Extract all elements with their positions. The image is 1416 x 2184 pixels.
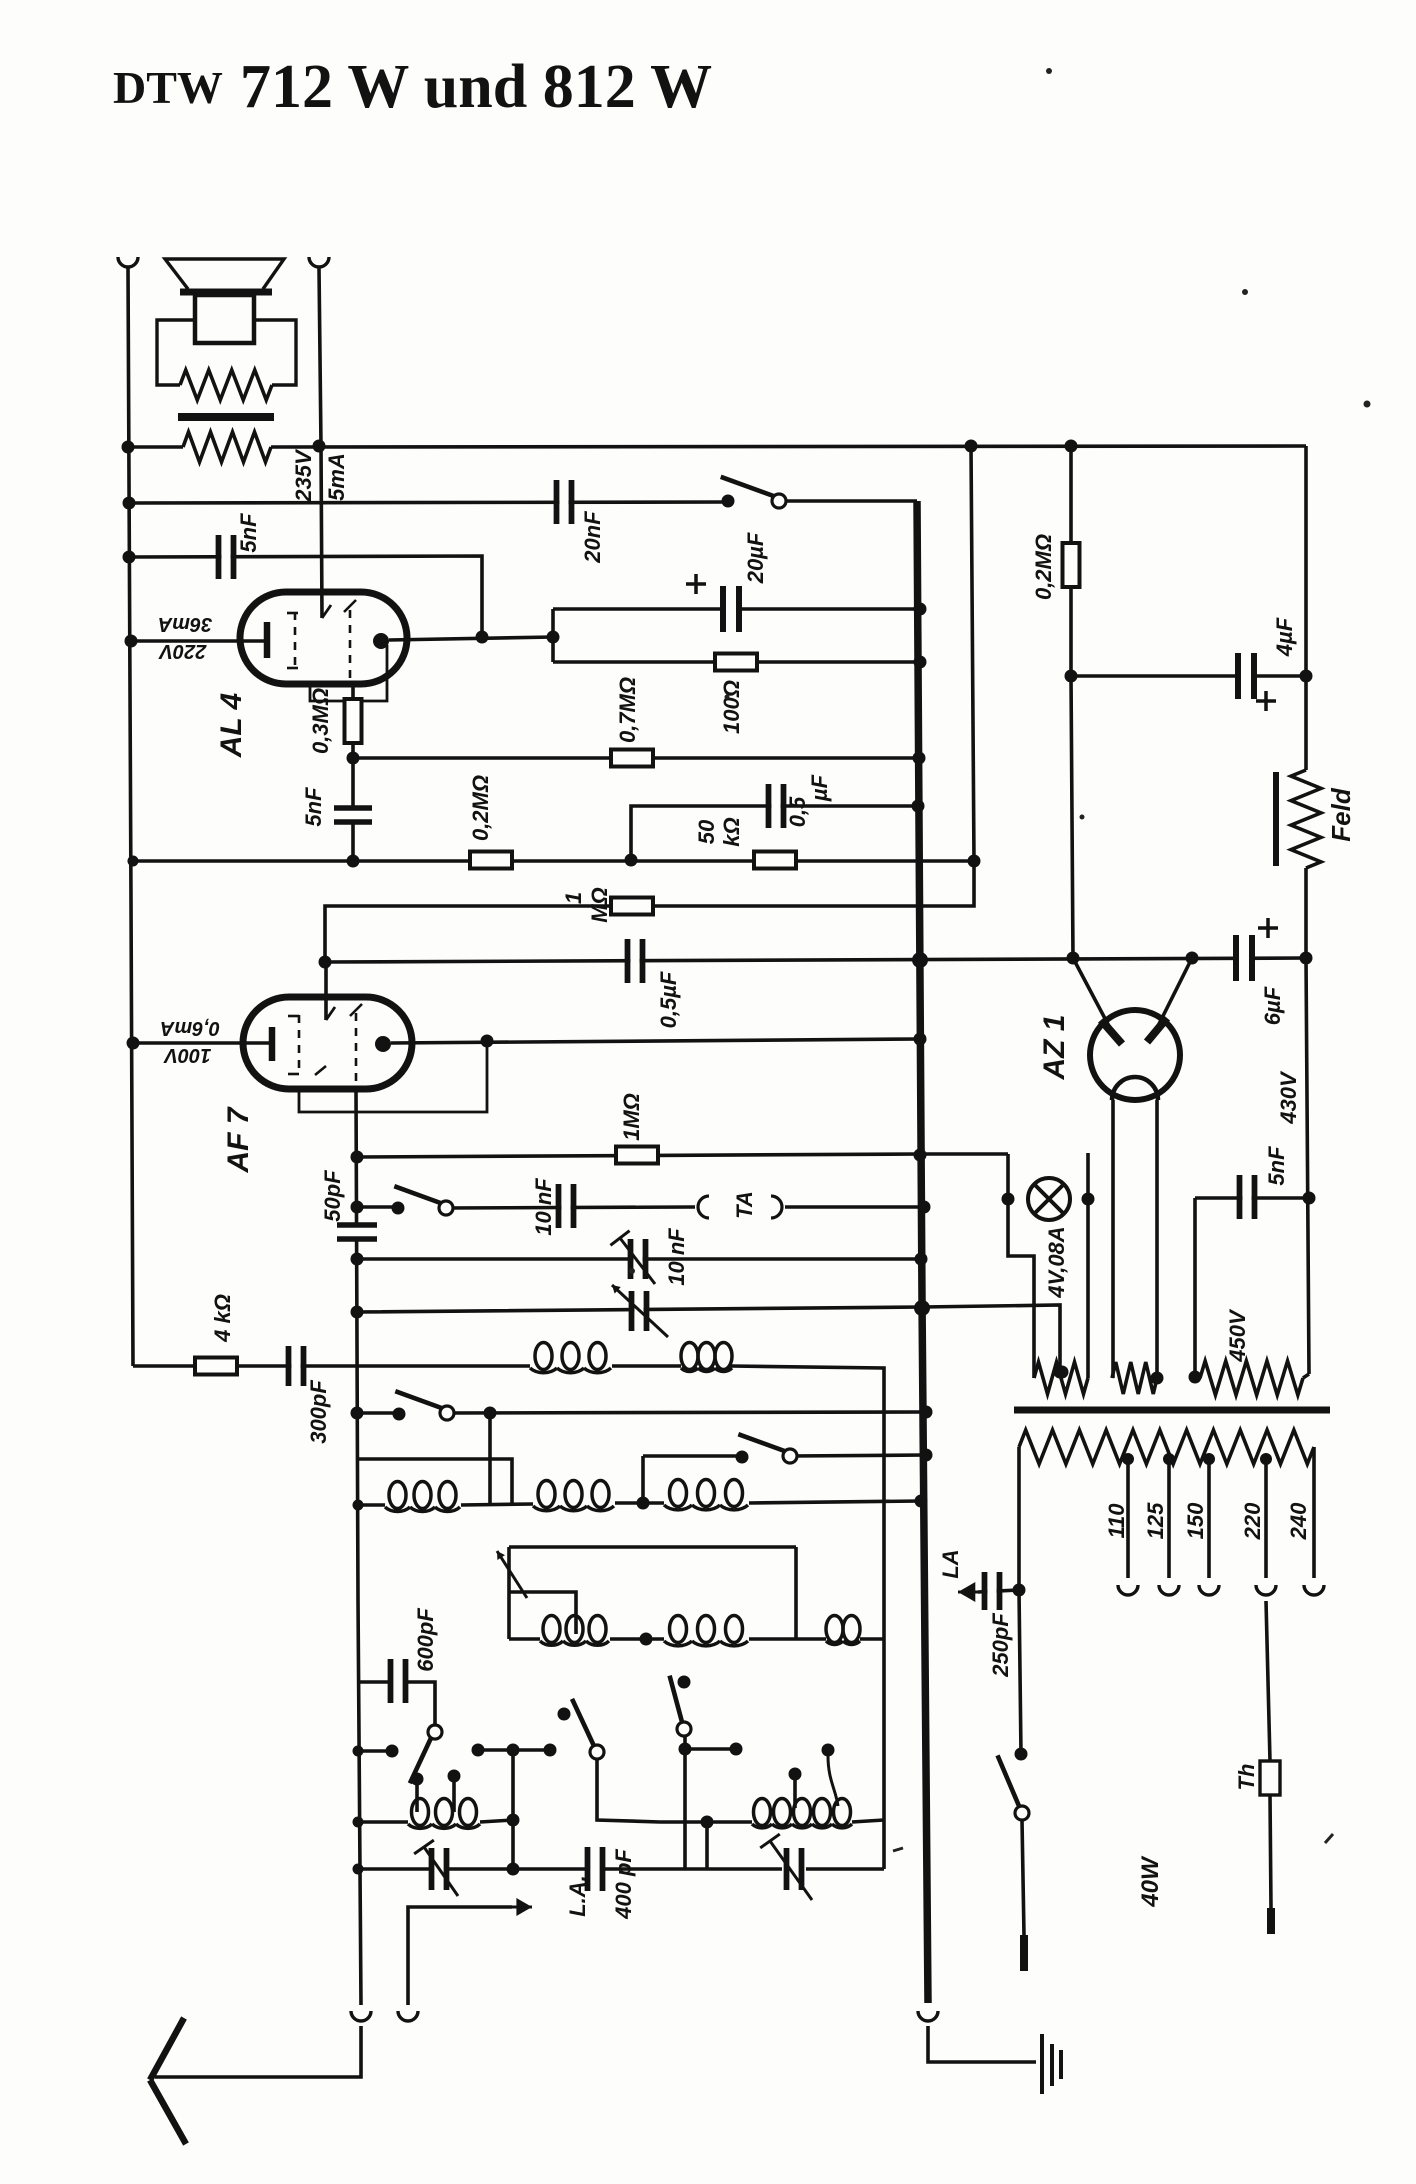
junction dot xyxy=(319,956,332,969)
output transformer box xyxy=(157,320,195,385)
wire tap stub b2 xyxy=(828,1756,838,1806)
tap jack 150 xyxy=(1199,1585,1219,1595)
terminal jack left of speaker xyxy=(118,257,138,267)
junction dot xyxy=(1300,952,1313,965)
coil oscillator B xyxy=(754,1799,771,1826)
junction dot xyxy=(351,1253,364,1266)
capacitor 250pF xyxy=(985,1572,1000,1610)
junction dot xyxy=(915,1495,928,1508)
svg-text:10 nF: 10 nF xyxy=(531,1178,556,1236)
junction dot xyxy=(625,854,638,867)
svg-text:110: 110 xyxy=(1104,1503,1129,1539)
junction dot xyxy=(507,1814,520,1827)
transformer winding AZ1 filament xyxy=(1112,1362,1157,1394)
junction dot xyxy=(386,1745,399,1758)
AF7 cathode lead xyxy=(133,1041,270,1045)
resistor 0.7Mohm xyxy=(611,750,653,767)
junction dot xyxy=(914,1300,930,1316)
capacitor 600pF xyxy=(391,1659,406,1703)
wire left vertical main xyxy=(128,268,133,1366)
svg-text:4µF: 4µF xyxy=(1272,617,1297,657)
capacitor 20nF xyxy=(557,480,572,524)
wire row1456 xyxy=(643,1454,742,1458)
coil row1503 a xyxy=(389,1482,406,1509)
transformer winding HV 450V xyxy=(1200,1361,1303,1395)
mains plug pin right xyxy=(1267,1908,1275,1934)
wire osc coil row right xyxy=(660,1820,752,1824)
switch contact dot xyxy=(736,1451,749,1464)
wire bus to ground xyxy=(928,2026,1036,2062)
AL4 cathode lead xyxy=(131,639,266,643)
switch pivot row1413 xyxy=(395,1391,447,1410)
junction dot xyxy=(347,855,360,868)
mains plug pin left xyxy=(1020,1935,1028,1971)
trimmer tuning xyxy=(632,1291,647,1331)
AF7 grid1 dashed xyxy=(298,1015,301,1075)
junction dot xyxy=(730,1743,743,1756)
capacitor 0.5uF top xyxy=(769,784,784,828)
capacitor 4uF electrolytic xyxy=(1238,653,1254,699)
AL4 anode dot xyxy=(373,633,389,649)
coil row1503 c xyxy=(670,1480,687,1507)
switch pivot TA xyxy=(394,1186,446,1205)
junction dot xyxy=(1303,1192,1316,1205)
AF7 cathode bar xyxy=(269,1027,276,1061)
junction dot xyxy=(507,1744,520,1757)
svg-text:L.A.: L.A. xyxy=(565,1875,590,1917)
bus wire xyxy=(917,501,928,2003)
wire branch x490 xyxy=(488,1413,492,1503)
svg-text:240: 240 xyxy=(1286,1502,1311,1540)
capacitor 10nF xyxy=(559,1184,574,1228)
wire 600pF row xyxy=(358,1680,391,1684)
junction dot xyxy=(1002,1193,1015,1206)
LA arrow xyxy=(495,1906,532,1909)
svg-text:0,2MΩ: 0,2MΩ xyxy=(468,775,493,841)
svg-text:0,7MΩ: 0,7MΩ xyxy=(615,677,640,743)
wire 0.2M right vertical xyxy=(1069,446,1073,676)
svg-text:10 nF: 10 nF xyxy=(664,1228,689,1286)
wire coil row1639 xyxy=(509,1637,540,1641)
wire x707 vertical xyxy=(705,1822,709,1869)
junction dot xyxy=(1082,1193,1095,1206)
wire left edge x509 xyxy=(507,1547,511,1639)
svg-text:100Ω: 100Ω xyxy=(719,680,744,734)
resistor 0.2Mohm right xyxy=(1063,543,1080,587)
svg-text:1MΩ: 1MΩ xyxy=(619,1093,644,1141)
AF7 anode dot xyxy=(375,1036,391,1052)
junction dot xyxy=(351,1151,364,1164)
svg-text:450V: 450V xyxy=(1225,1308,1250,1363)
junction dot xyxy=(353,1746,364,1757)
junction dot xyxy=(123,497,136,510)
junction dot xyxy=(912,952,928,968)
LA jack xyxy=(398,2011,418,2021)
coil row1366 b xyxy=(681,1343,698,1370)
wire AF7 grid cap lead xyxy=(324,962,328,1020)
junction dot xyxy=(481,1035,494,1048)
AL4 screen lead tick xyxy=(322,605,331,618)
AZ1 cathode dome xyxy=(1112,1077,1158,1100)
wire anode branch vertical xyxy=(551,609,555,662)
resistor 1Mohm b xyxy=(616,1147,658,1164)
junction dot xyxy=(1122,1453,1134,1465)
svg-text:Feld: Feld xyxy=(1326,787,1356,842)
wire line y960 xyxy=(325,958,1306,962)
resistor 4kohm xyxy=(195,1358,237,1375)
svg-text:5nF: 5nF xyxy=(236,513,261,553)
wire 20uF line y609 xyxy=(553,607,920,611)
wire row1459 xyxy=(358,1459,512,1503)
capacitor 300pF xyxy=(289,1346,304,1386)
wire tap stub b1 xyxy=(793,1779,797,1808)
trimmer pad b xyxy=(787,1848,802,1890)
wire trim row y1312 xyxy=(357,1305,1060,1372)
switch pivot xyxy=(721,477,779,498)
speaker voice coil xyxy=(195,295,254,343)
wire top line y446 xyxy=(128,445,183,449)
svg-text:6µF: 6µF xyxy=(1260,986,1285,1025)
AL4 grid 3 dashed to 0.3M xyxy=(349,610,352,684)
junction dot xyxy=(353,1817,364,1828)
wire 0.7M line y758 xyxy=(353,756,919,760)
junction dot xyxy=(472,1744,485,1757)
svg-text:0,2MΩ: 0,2MΩ xyxy=(1031,534,1056,600)
wire stub contact to coil xyxy=(415,1784,419,1812)
svg-text:AF 7: AF 7 xyxy=(222,1106,255,1173)
speck xyxy=(1046,68,1052,74)
wire heater stub row xyxy=(920,1152,1008,1156)
transformer core bar xyxy=(1014,1407,1330,1414)
wire grid line x357 xyxy=(356,1089,361,2005)
junction dot xyxy=(544,1744,557,1757)
wire osc2 drop xyxy=(597,1758,660,1822)
wire vertical x972 xyxy=(971,446,974,861)
wire LA jack up xyxy=(408,1907,512,2005)
coil row1639 F xyxy=(826,1616,843,1643)
svg-text:4V,08A: 4V,08A xyxy=(1044,1226,1069,1298)
svg-text:µF: µF xyxy=(807,774,832,802)
wire 1M line y906 xyxy=(325,861,974,962)
wire x1195 drop xyxy=(1193,1198,1197,1377)
tap wire 220 xyxy=(1264,1459,1268,1578)
junction dot xyxy=(1189,1371,1202,1384)
fuse Th xyxy=(1260,1761,1280,1795)
junction dot xyxy=(1054,1366,1067,1379)
junction dot xyxy=(313,440,326,453)
junction dot xyxy=(822,1744,835,1757)
svg-text:kΩ: kΩ xyxy=(719,817,744,846)
wire 4uF line y676 xyxy=(1071,674,1306,678)
LA arrow right xyxy=(958,1591,990,1594)
hum resistor on top line xyxy=(183,432,271,462)
tap wire 110 xyxy=(1126,1459,1130,1578)
resistor 0.3Mohm xyxy=(345,699,362,743)
junction dot xyxy=(123,551,136,564)
AF7 grid2 dashed xyxy=(355,1013,358,1089)
wire right vertical upper xyxy=(1304,446,1308,770)
TA jack left xyxy=(698,1196,709,1218)
svg-text:AL 4: AL 4 xyxy=(215,692,248,758)
junction dot xyxy=(507,1863,520,1876)
speaker magnet bar xyxy=(178,413,274,421)
junction dot xyxy=(476,631,489,644)
capacitor 400pF xyxy=(588,1847,603,1891)
junction dot xyxy=(448,1770,461,1783)
wire top line y1547 xyxy=(509,1545,796,1549)
junction dot xyxy=(914,1033,927,1046)
tube AZ1 envelope xyxy=(1090,1010,1180,1100)
junction dot xyxy=(1163,1453,1175,1465)
wire tap jog xyxy=(509,1592,576,1634)
coil row1639 E xyxy=(670,1616,687,1643)
junction dot xyxy=(351,1407,364,1420)
tap jack 110 xyxy=(1118,1585,1138,1595)
tuning arrow coil D xyxy=(497,1551,527,1598)
wire 1M row y1154 xyxy=(357,1154,920,1157)
junction dot xyxy=(125,635,138,648)
wire TA row xyxy=(357,1205,398,1209)
wire 0.5uF line y806 xyxy=(631,806,918,859)
resistor 50kohm xyxy=(754,852,796,869)
AL4 grid 1 dashed xyxy=(294,612,297,668)
svg-text:Th: Th xyxy=(1234,1764,1259,1791)
svg-text:600pF: 600pF xyxy=(413,1608,438,1672)
svg-text:40W: 40W xyxy=(1137,1855,1164,1908)
junction dot xyxy=(968,855,981,868)
AZ1 anode bars xyxy=(1101,1018,1167,1044)
wire branch x513 xyxy=(511,1750,515,1871)
TA jack right xyxy=(771,1196,782,1218)
wire lamp right leg xyxy=(1086,1153,1090,1378)
transformer winding heater1 xyxy=(1034,1362,1088,1394)
wire row1413 xyxy=(357,1411,399,1415)
junction dot xyxy=(1065,440,1078,453)
capacitor 50pF xyxy=(337,1228,377,1237)
wire 5nF az row xyxy=(1195,1196,1309,1200)
resistor 1Mohm a xyxy=(611,898,653,915)
AF7 underloop xyxy=(299,1041,487,1112)
svg-text:5nF: 5nF xyxy=(1264,1146,1289,1186)
wire AF7 anode row xyxy=(391,1039,920,1043)
terminal jack right of speaker xyxy=(309,257,329,267)
trimmer 10nF xyxy=(631,1239,646,1279)
junction dot xyxy=(128,856,139,867)
AZ1 anode leads xyxy=(1073,958,1110,1028)
junction dot xyxy=(914,1149,927,1162)
wire x685 vertical xyxy=(683,1736,687,1869)
junction dot xyxy=(351,1306,364,1319)
wire HV right lead xyxy=(1303,1374,1309,1378)
junction dot xyxy=(914,603,927,616)
junction dot xyxy=(547,631,560,644)
junction dot xyxy=(915,1253,928,1266)
junction dot xyxy=(1186,952,1199,965)
svg-text:1: 1 xyxy=(561,892,586,904)
svg-text:36mA: 36mA xyxy=(158,613,212,635)
AL4 internal loop xyxy=(310,645,387,701)
wire primary left lead xyxy=(1017,1447,1021,1590)
svg-text:712 W und 812 W: 712 W und 812 W xyxy=(240,53,712,121)
svg-text:0,5µF: 0,5µF xyxy=(656,971,681,1028)
tap jack 240 xyxy=(1304,1585,1324,1595)
junction dot xyxy=(353,1864,364,1875)
junction dot xyxy=(1067,952,1080,965)
junction dot xyxy=(918,1201,931,1214)
switch contact dot xyxy=(722,495,735,508)
tap wire 240 xyxy=(1312,1447,1316,1578)
junction dot xyxy=(912,800,925,813)
tube AF7 envelope xyxy=(243,997,412,1089)
junction dot xyxy=(1013,1584,1026,1597)
svg-text:150: 150 xyxy=(1183,1502,1208,1539)
resistor 0.2Mohm left xyxy=(470,852,512,869)
coil row1366 a xyxy=(535,1343,552,1370)
svg-text:125: 125 xyxy=(1143,1502,1168,1539)
wire right speaker terminal to AL4 screen xyxy=(319,268,322,618)
wire line y557 xyxy=(129,556,482,636)
wire stub pair b xyxy=(478,1748,550,1752)
wire osc coil row xyxy=(358,1820,408,1824)
coil oscillator A xyxy=(412,1799,429,1826)
junction dot xyxy=(347,752,360,765)
wire lamp feed xyxy=(1008,1154,1034,1378)
junction dot xyxy=(679,1743,692,1756)
junction dot xyxy=(122,441,135,454)
wire 1019 upper xyxy=(1019,1590,1021,1754)
wire 250pF row xyxy=(978,1590,1019,1592)
junction dot xyxy=(920,1449,933,1462)
junction dot xyxy=(640,1633,653,1646)
junction dot xyxy=(484,1407,497,1420)
junction dot xyxy=(1300,670,1313,683)
resistor 100ohm xyxy=(715,654,757,671)
svg-text:DTW: DTW xyxy=(113,62,223,113)
svg-text:0,3MΩ: 0,3MΩ xyxy=(308,688,333,754)
wire stub pair a xyxy=(358,1749,392,1753)
AZ1 filament legs xyxy=(1111,1100,1115,1378)
switch contact dot xyxy=(392,1202,405,1215)
svg-text:250pF: 250pF xyxy=(988,1613,1013,1678)
switch contact dot xyxy=(558,1708,571,1721)
svg-text:MΩ: MΩ xyxy=(587,887,612,923)
plus sign 20uF xyxy=(686,574,706,594)
svg-text:4 kΩ: 4 kΩ xyxy=(210,1294,235,1343)
junction dot xyxy=(789,1768,802,1781)
switch contact dot xyxy=(1015,1748,1028,1761)
svg-text:TA: TA xyxy=(732,1191,757,1219)
AF7 top grid lead tick xyxy=(326,1007,335,1020)
switch pivot osc3 xyxy=(677,1722,691,1736)
switch pivot osc xyxy=(428,1725,442,1739)
wire AL4 grid to 0.3M xyxy=(351,684,355,861)
capacitor 5nF top xyxy=(219,535,234,579)
AL4 cathode bar xyxy=(264,622,271,658)
wire mains switch lower xyxy=(1022,1820,1024,1935)
wire line y503 xyxy=(129,502,728,503)
wire trim row y1259 xyxy=(357,1257,921,1261)
wire right vertical mid xyxy=(1304,868,1308,958)
plus sign 6uF xyxy=(1258,918,1278,938)
junction dot xyxy=(965,440,978,453)
svg-text:400 pF: 400 pF xyxy=(611,1849,636,1920)
wire mains 220 lead xyxy=(1266,1601,1270,1761)
svg-text:100V: 100V xyxy=(163,1044,211,1066)
junction dot xyxy=(913,752,926,765)
svg-text:LA: LA xyxy=(938,1549,963,1578)
svg-text:430V: 430V xyxy=(1276,1070,1301,1125)
tap jack 220 xyxy=(1256,1585,1276,1595)
wire antenna link xyxy=(155,2026,361,2077)
bus jack xyxy=(918,2011,938,2021)
switch contact dot xyxy=(411,1773,424,1786)
coil row1503 b xyxy=(538,1481,555,1508)
wire AL4 anode xyxy=(389,637,553,640)
capacitor 0.5uF AF7 xyxy=(628,939,643,983)
junction dot xyxy=(127,1037,140,1050)
wire stub tap xyxy=(452,1781,456,1812)
svg-text:AZ 1: AZ 1 xyxy=(1038,1014,1071,1080)
wire drop x643 xyxy=(641,1456,645,1503)
junction dot xyxy=(1151,1372,1164,1385)
junction dot xyxy=(351,1201,364,1214)
wire right edge x796 xyxy=(794,1547,798,1639)
tube AL4 envelope xyxy=(240,592,407,684)
ground symbol xyxy=(1042,2034,1061,2094)
junction dot xyxy=(1065,670,1078,683)
antenna jack xyxy=(351,2011,371,2021)
svg-text:0,6mA: 0,6mA xyxy=(160,1017,220,1039)
junction dot xyxy=(701,1816,714,1829)
mains switch pivot xyxy=(1015,1806,1029,1820)
transformer primary winding xyxy=(1019,1430,1314,1464)
svg-text:50: 50 xyxy=(694,819,719,844)
trimmer pad a xyxy=(432,1848,447,1890)
junction dot xyxy=(637,1497,650,1510)
junction dot xyxy=(353,1500,364,1511)
junction dot xyxy=(920,1406,933,1419)
tap wire 150 xyxy=(1207,1459,1211,1578)
tap jack 125 xyxy=(1159,1585,1179,1595)
field coil Feld xyxy=(1291,770,1321,868)
svg-text:5mA: 5mA xyxy=(324,453,349,501)
capacitor 5nF AZ1 xyxy=(1240,1175,1255,1219)
svg-text:220V: 220V xyxy=(158,640,207,662)
tap wire 125 xyxy=(1167,1459,1171,1578)
junction dot xyxy=(1203,1453,1215,1465)
antenna symbol xyxy=(150,2018,186,2144)
svg-text:5nF: 5nF xyxy=(301,787,326,827)
pilot lamp 4V 0.8A xyxy=(1028,1178,1070,1220)
capacitor 20uF electrolytic xyxy=(723,586,739,632)
wire right vertical lower xyxy=(1306,958,1309,1374)
svg-text:235V: 235V xyxy=(291,448,316,503)
switch pivot osc2 xyxy=(590,1745,604,1759)
plus sign 4uF xyxy=(1256,691,1276,711)
svg-text:20nF: 20nF xyxy=(580,511,605,564)
svg-text:220: 220 xyxy=(1240,1502,1265,1540)
junction dot xyxy=(914,656,927,669)
switch pivot row1456 xyxy=(738,1434,790,1453)
wire bottom row y1869 xyxy=(358,1867,429,1871)
switch contact dot xyxy=(678,1676,691,1689)
loudspeaker cone xyxy=(165,259,284,289)
coil row1639 D xyxy=(543,1616,560,1643)
svg-text:20µF: 20µF xyxy=(743,532,768,584)
output transformer winding resistor xyxy=(180,370,272,400)
junction dot xyxy=(1260,1453,1272,1465)
svg-text:300pF: 300pF xyxy=(306,1380,331,1444)
